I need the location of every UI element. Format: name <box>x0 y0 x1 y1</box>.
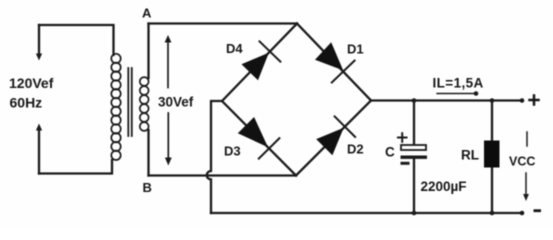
wire capacitor branch upper <box>413 101 415 146</box>
svg-text:30Vef: 30Vef <box>158 95 194 110</box>
terminal minus sign output <box>534 209 542 212</box>
wire primary loop top <box>39 25 114 55</box>
svg-text:120Vef: 120Vef <box>9 75 54 91</box>
transformer T1 core <box>128 68 132 136</box>
junction node bottom rail at capacitor <box>412 211 417 216</box>
svg-text:RL: RL <box>461 148 479 163</box>
wire node B to bridge bottom vertex <box>149 174 297 176</box>
wire primary loop left lower <box>38 130 40 174</box>
wire left vertex to negative rail with hop over B wire <box>207 101 222 213</box>
wire capacitor branch lower <box>413 159 415 213</box>
capacitor C1 top plate <box>401 145 426 150</box>
diode D4 (left vertex to top vertex) <box>242 41 281 80</box>
VCC arrow lower (points down) <box>525 173 527 195</box>
svg-text:A: A <box>142 6 152 21</box>
svg-text:D2: D2 <box>347 142 364 157</box>
wire RL branch lower <box>491 167 493 213</box>
wire node A to bridge top vertex <box>149 22 298 24</box>
arrow 30Vef measure upper (points up) <box>167 41 169 158</box>
wire primary loop left upper (AC source lead) <box>38 25 40 54</box>
terminal plus sign output <box>530 96 539 105</box>
svg-text:D3: D3 <box>224 144 241 159</box>
diode D2 (bottom vertex to right vertex) <box>316 116 355 155</box>
terminal node top rail end <box>520 98 525 103</box>
svg-text:C: C <box>385 145 395 160</box>
wire positive top rail <box>371 99 522 101</box>
wire bridge edge top-left (D4 branch) <box>222 24 297 102</box>
arrow 30Vef measure lower (points down) <box>165 158 172 166</box>
VCC dashed indicator upper dash <box>526 132 528 146</box>
resistor RL body <box>484 141 500 168</box>
svg-text:D4: D4 <box>226 41 243 56</box>
transformer T1 primary winding <box>111 54 120 160</box>
wire bridge edge top-right (D1 branch) <box>297 24 371 101</box>
wire RL branch upper <box>491 101 493 142</box>
diode D1 (top vertex to right vertex) <box>315 42 355 82</box>
wire secondary top lead (node A to coil) <box>147 24 149 79</box>
capacitor C1 minus sign <box>401 162 410 165</box>
capacitor C1 plus sign <box>398 133 407 142</box>
junction node top rail at RL <box>490 98 495 103</box>
arrow IL current (points right) <box>437 93 474 95</box>
svg-text:2200µF: 2200µF <box>421 179 467 194</box>
wire secondary bottom lead (coil to node B) <box>147 130 149 176</box>
wire bridge edge bottom-left (D3 branch) <box>222 101 296 176</box>
wire primary loop bottom <box>39 160 112 174</box>
svg-text:60Hz: 60Hz <box>10 95 43 111</box>
capacitor C1 bottom plate <box>401 156 428 159</box>
svg-text:VCC: VCC <box>509 155 535 169</box>
svg-text:IL=1,5A: IL=1,5A <box>433 76 484 91</box>
wire bridge edge bottom-right (D2 branch) <box>296 101 371 176</box>
junction node bottom rail at RL <box>490 211 495 216</box>
svg-text:D1: D1 <box>347 42 364 57</box>
terminal node bottom rail end <box>520 211 525 216</box>
svg-text:B: B <box>143 180 152 195</box>
arrow primary voltage lower (points up) <box>36 124 42 131</box>
diode D3 (left vertex to bottom vertex) <box>238 117 280 159</box>
wire negative bottom rail <box>211 212 522 214</box>
junction node top rail at capacitor <box>412 98 417 103</box>
arrow primary voltage upper (points down) <box>36 54 42 61</box>
transformer T1 secondary winding <box>140 77 149 131</box>
